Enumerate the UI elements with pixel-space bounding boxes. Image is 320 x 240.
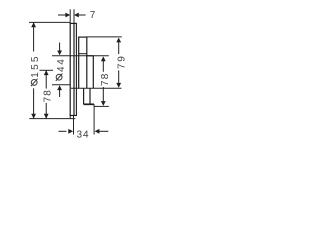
svg-text:155: 155	[30, 54, 41, 78]
svg-text:79: 79	[116, 54, 127, 69]
svg-text:78: 78	[43, 89, 54, 102]
svg-text:34: 34	[77, 130, 90, 141]
svg-text:7: 7	[90, 10, 97, 21]
svg-text:78: 78	[100, 73, 111, 86]
svg-text:44: 44	[56, 57, 67, 72]
